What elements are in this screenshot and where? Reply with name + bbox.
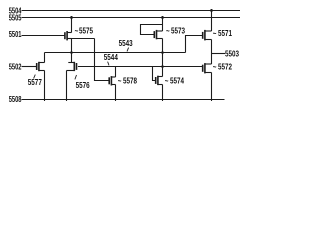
svg-text:5575: 5575 — [79, 26, 93, 36]
wire source 5576 to rail 5508 — [66, 71, 68, 102]
wire diode loop gate-drain 5573 — [141, 25, 163, 35]
wire drain 5575 to rail 5505 — [71, 16, 73, 33]
svg-text:5543: 5543 — [119, 38, 133, 48]
node 5543 wire (main) — [45, 52, 186, 54]
svg-text:~: ~ — [118, 76, 122, 86]
wire drain 5573 to rail 5505 — [162, 16, 164, 31]
wire rail 5508 — [22, 99, 225, 101]
wire rail 5504 — [22, 10, 241, 12]
wire 5575 source to 5578 gate (horizontal) — [72, 38, 95, 40]
junction dot node 5543 at x71.5 — [70, 51, 73, 54]
wire drain 5574 up to node 5543 — [162, 53, 164, 77]
transistor 5576 — [67, 62, 77, 71]
junction dot node 5543 at x162.3 — [161, 51, 164, 54]
label 5543 leader tick — [127, 48, 129, 52]
svg-text:~: ~ — [75, 26, 79, 36]
wire vertical x94 down to 5578 gate — [95, 39, 110, 81]
wire gate branch to 5574 from net 5544 — [153, 67, 156, 81]
wire 5502 to gate of 5577 — [22, 66, 37, 68]
wire drain 5577 up to node 5543 — [44, 53, 46, 63]
svg-text:5503: 5503 — [225, 49, 239, 59]
transistor 5578 — [109, 76, 115, 85]
wire 5501 to gate of 5575 — [22, 35, 65, 37]
wire drain 5578 up to net 5544 — [115, 67, 117, 78]
wire rail 5505 — [22, 17, 241, 19]
svg-text:5572: 5572 — [218, 62, 232, 72]
wire gate 5571 from node 5543 — [186, 36, 203, 53]
svg-text:~: ~ — [213, 62, 217, 72]
svg-text:5577: 5577 — [28, 77, 42, 87]
label 5576 leader tick — [75, 75, 77, 79]
svg-text:5501: 5501 — [9, 31, 22, 39]
wire output 5503 stub — [212, 53, 226, 55]
transistor 5574 — [156, 76, 163, 85]
svg-text:5576: 5576 — [76, 80, 90, 90]
svg-text:5573: 5573 — [171, 26, 185, 36]
wire source 5573 down to node 5543 — [162, 39, 164, 53]
wire source 5575 down to node 5543 — [71, 39, 73, 53]
transistor 5571 — [203, 30, 212, 41]
net 5544 wire (gates of 5576 5574 5572) — [78, 66, 203, 68]
wire source 5574 to rail 5508 — [162, 85, 164, 102]
svg-text:5574: 5574 — [170, 76, 184, 86]
junction dot 5571 drain on 5504 — [210, 9, 213, 12]
transistor 5573 — [154, 30, 162, 39]
junction dot 5544 at x162.3 — [161, 65, 164, 68]
wire drain 5571 to rail 5504 — [211, 9, 213, 31]
label 5577 leader tick — [34, 75, 36, 79]
wire source 5572 to rail 5508 — [211, 73, 213, 102]
wire source 5578 to rail 5508 — [115, 85, 117, 102]
svg-text:5578: 5578 — [123, 76, 137, 86]
svg-text:5502: 5502 — [9, 64, 22, 72]
wire source 5577 to rail 5508 — [44, 71, 46, 102]
svg-text:5544: 5544 — [104, 52, 118, 62]
transistor 5572 — [203, 63, 212, 73]
junction dot 5573 drain on 5505 — [161, 16, 164, 19]
transistor 5575 — [65, 31, 72, 40]
svg-text:~: ~ — [165, 76, 169, 86]
svg-text:5508: 5508 — [9, 96, 22, 104]
wire drain 5576 up to node 5543 — [71, 53, 73, 63]
svg-text:~: ~ — [213, 28, 217, 38]
svg-text:5505: 5505 — [9, 15, 22, 23]
svg-text:5571: 5571 — [218, 28, 232, 38]
wire node between 5571 and 5572 — [211, 40, 213, 65]
svg-text:~: ~ — [166, 26, 170, 36]
label 5544 leader tick — [108, 62, 109, 66]
junction dot 5575 drain on 5505 — [70, 16, 73, 19]
transistor 5577 — [37, 62, 45, 71]
